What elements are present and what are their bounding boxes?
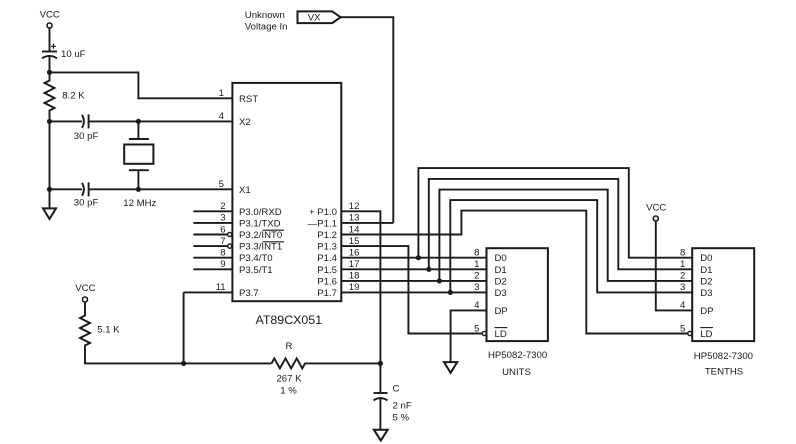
svg-text:30 pF: 30 pF — [74, 131, 99, 142]
svg-text:267 K: 267 K — [276, 374, 302, 385]
svg-text:5: 5 — [219, 179, 224, 190]
svg-text:10 uF: 10 uF — [61, 49, 86, 60]
svg-text:Voltage In: Voltage In — [245, 21, 288, 32]
svg-text:P3.5/T1: P3.5/T1 — [239, 265, 273, 276]
svg-text:P1.7: P1.7 — [317, 288, 337, 299]
svg-text:1: 1 — [219, 88, 224, 99]
svg-text:2 nF: 2 nF — [393, 401, 412, 412]
svg-text:Unknown: Unknown — [245, 10, 285, 21]
svg-text:VX: VX — [308, 13, 321, 24]
svg-text:HP5082-7300: HP5082-7300 — [488, 350, 547, 361]
svg-text:P3.7: P3.7 — [239, 288, 259, 299]
svg-text:8: 8 — [474, 248, 479, 259]
svg-text:8.2 K: 8.2 K — [62, 91, 85, 102]
svg-text:5 %: 5 % — [393, 412, 410, 423]
svg-text:R: R — [286, 341, 293, 352]
svg-text:D1: D1 — [700, 265, 712, 276]
svg-text:TENTHS: TENTHS — [705, 367, 743, 378]
svg-text:5: 5 — [474, 323, 479, 334]
svg-text:D3: D3 — [700, 288, 712, 299]
svg-text:D0: D0 — [700, 253, 712, 264]
svg-text:DP: DP — [700, 306, 713, 317]
svg-text:5.1 K: 5.1 K — [97, 325, 120, 336]
svg-text:D3: D3 — [495, 288, 507, 299]
svg-text:D2: D2 — [495, 276, 507, 287]
svg-text:P3.1/TXD: P3.1/TXD — [239, 218, 281, 229]
svg-text:P1.5: P1.5 — [317, 265, 337, 276]
svg-text:30 pF: 30 pF — [74, 198, 99, 209]
svg-text:D1: D1 — [495, 265, 507, 276]
svg-text:C: C — [393, 384, 400, 395]
svg-text:VCC: VCC — [646, 202, 666, 213]
svg-text:LD: LD — [495, 329, 507, 340]
svg-text:X1: X1 — [239, 185, 251, 196]
svg-text:2: 2 — [680, 271, 685, 282]
svg-text:P1.2: P1.2 — [317, 230, 337, 241]
svg-text:P1.6: P1.6 — [317, 276, 337, 287]
svg-text:1: 1 — [680, 259, 685, 270]
svg-text:LD: LD — [700, 329, 712, 340]
svg-text:D0: D0 — [495, 253, 507, 264]
svg-text:VCC: VCC — [40, 10, 60, 21]
svg-text:DP: DP — [495, 306, 508, 317]
svg-text:P3.3/INT1: P3.3/INT1 — [239, 242, 282, 253]
svg-text:1: 1 — [474, 259, 479, 270]
svg-text:P3.2/INT0: P3.2/INT0 — [239, 230, 282, 241]
svg-text:D2: D2 — [700, 276, 712, 287]
svg-text:3: 3 — [474, 282, 479, 293]
svg-text:8: 8 — [680, 248, 685, 259]
svg-text:AT89CX051: AT89CX051 — [256, 313, 323, 327]
svg-text:X2: X2 — [239, 117, 251, 128]
svg-text:RST: RST — [239, 94, 258, 105]
svg-text:UNITS: UNITS — [502, 367, 531, 378]
svg-text:2: 2 — [474, 271, 479, 282]
svg-text:1 %: 1 % — [280, 386, 297, 397]
svg-text:3: 3 — [680, 282, 685, 293]
svg-text:VCC: VCC — [75, 283, 95, 294]
svg-text:P3.4/T0: P3.4/T0 — [239, 253, 273, 264]
svg-text:+ P1.0: + P1.0 — [309, 207, 337, 218]
svg-text:4: 4 — [219, 111, 225, 122]
svg-text:P3.0/RXD: P3.0/RXD — [239, 207, 282, 218]
svg-text:P1.4: P1.4 — [317, 253, 337, 264]
svg-text:HP5082-7300: HP5082-7300 — [694, 351, 753, 362]
svg-text:12 MHz: 12 MHz — [123, 198, 156, 209]
svg-text:5: 5 — [680, 323, 685, 334]
svg-text:—P1.1: —P1.1 — [308, 218, 337, 229]
svg-text:P1.3: P1.3 — [317, 242, 337, 253]
